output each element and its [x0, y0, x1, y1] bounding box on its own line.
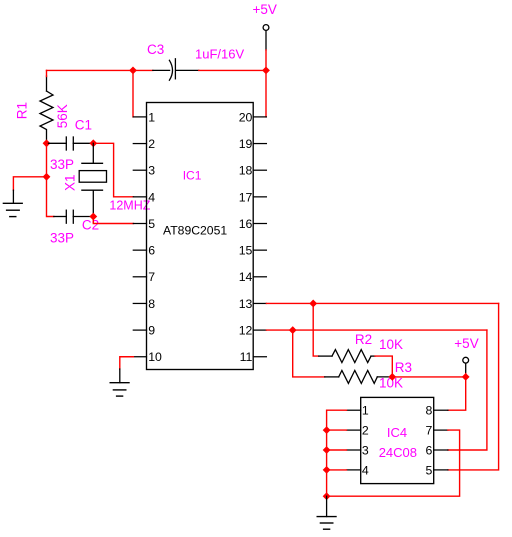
IC4 pin numbers left 1-4 — [362, 404, 369, 478]
svg-text:10K: 10K — [379, 337, 403, 352]
svg-text:6: 6 — [148, 244, 155, 258]
svg-text:15: 15 — [239, 244, 253, 258]
junction bus pin2 — [323, 427, 329, 433]
svg-text:7: 7 — [426, 424, 433, 438]
wire left vertical node — [47, 143, 54, 216]
svg-text:19: 19 — [239, 137, 253, 151]
svg-text:1: 1 — [148, 110, 155, 124]
svg-text:R1: R1 — [15, 102, 30, 119]
crystal X1 stem bottom — [92, 190, 94, 214]
svg-text:C3: C3 — [147, 42, 164, 57]
wire IC4 pin2 to bus — [327, 429, 347, 431]
svg-text:2: 2 — [148, 137, 155, 151]
wire IC4 pin3 to bus — [327, 449, 347, 451]
capacitor C3 — [153, 59, 199, 80]
wire pin13 net down to IC4 pin 5 — [448, 303, 499, 469]
wire +5V to node — [265, 50, 267, 70]
svg-text:R2: R2 — [355, 332, 372, 347]
svg-text:4: 4 — [362, 463, 369, 477]
capacitor C1 — [49, 137, 92, 150]
svg-text:20: 20 — [239, 110, 253, 124]
wire IC4 pin1 to ground bus — [327, 410, 347, 496]
junction at +5V node — [263, 67, 269, 73]
svg-text:7: 7 — [148, 270, 155, 284]
ground G1 stem — [12, 190, 14, 203]
svg-text:+5V: +5V — [253, 2, 277, 17]
junction R2/R3 node — [389, 374, 395, 380]
wire R2 left feed — [313, 303, 319, 356]
junction ground bus node — [323, 493, 329, 499]
wire C3 left lead red — [133, 69, 153, 71]
junction +5V right node — [463, 374, 469, 380]
svg-text:12: 12 — [239, 324, 253, 338]
svg-text:33P: 33P — [50, 157, 74, 172]
svg-text:X1: X1 — [63, 174, 78, 191]
crystal X1 — [79, 163, 106, 190]
svg-text:12MHZ: 12MHZ — [109, 198, 150, 212]
wire IC4 pin7 to bottom bus — [327, 430, 460, 496]
IC U4 body — [361, 397, 434, 483]
wire R2 right to +5V node — [375, 356, 392, 377]
ground G2 — [110, 383, 129, 396]
svg-text:18: 18 — [239, 164, 253, 178]
junction pin13/R2 — [310, 300, 316, 306]
junction C2 right node — [90, 213, 96, 219]
wire C3 right to +5V node — [199, 69, 266, 71]
wire R1 top red stub — [46, 70, 48, 76]
svg-text:56K: 56K — [55, 104, 70, 128]
svg-text:8: 8 — [148, 297, 155, 311]
IC1 pin stubs right — [253, 117, 266, 357]
svg-text:10: 10 — [148, 350, 162, 364]
resistor R2 — [319, 350, 375, 363]
wire R3 node to +5V terminal — [392, 376, 465, 378]
wire to left ground — [13, 177, 46, 190]
wire C3 node down to pin 1 — [132, 70, 134, 117]
svg-text:6: 6 — [426, 443, 433, 457]
power terminal P2 stem — [465, 363, 467, 373]
svg-text:C2: C2 — [82, 217, 99, 232]
junction pin12/R3 — [290, 327, 296, 333]
svg-text:3: 3 — [148, 164, 155, 178]
wire pin 10 to ground — [120, 357, 134, 369]
wire IC4 pin4 to bus — [327, 469, 347, 471]
junction bus pin3 — [323, 447, 329, 453]
svg-text:8: 8 — [426, 404, 433, 418]
ground G2 stem — [119, 369, 121, 383]
IC4 pin stubs left — [347, 410, 361, 470]
svg-text:4: 4 — [148, 190, 155, 204]
svg-text:5: 5 — [426, 463, 433, 477]
crystal X1 stem top — [92, 143, 94, 163]
resistor R3 — [325, 370, 393, 383]
IC1 pin numbers left 1-10 — [148, 110, 162, 364]
svg-text:9: 9 — [148, 324, 155, 338]
IC4 pin stubs right — [434, 410, 448, 470]
svg-text:2: 2 — [362, 424, 369, 438]
svg-text:11: 11 — [240, 350, 253, 364]
wire C2 node to pin 5 — [93, 217, 133, 224]
svg-text:AT89C2051: AT89C2051 — [163, 223, 227, 237]
power terminal P2 circle — [463, 357, 469, 363]
junction bus pin4 — [323, 467, 329, 473]
svg-text:IC4: IC4 — [387, 425, 407, 440]
svg-text:13: 13 — [239, 297, 253, 311]
wire +5V node to IC4 pin 8 — [448, 377, 466, 410]
ground G1 — [3, 203, 22, 216]
svg-text:+5V: +5V — [454, 336, 478, 351]
svg-text:5: 5 — [148, 217, 155, 231]
svg-text:3: 3 — [362, 443, 369, 457]
wire pin 12 net horizontal — [266, 329, 487, 331]
junction C1 right node — [90, 140, 96, 146]
capacitor C2 — [54, 210, 92, 223]
IC1 pin stubs left — [133, 117, 146, 357]
junction at C3 left node — [130, 67, 136, 73]
power terminal P1 stem — [265, 31, 267, 50]
junction R1/C1 node — [43, 140, 49, 146]
ground G3 stem — [326, 496, 328, 516]
svg-text:14: 14 — [239, 270, 253, 284]
wire pin12 net down to IC4 pin 6 — [448, 330, 487, 450]
resistor R1 — [40, 76, 53, 143]
svg-text:C1: C1 — [75, 118, 92, 133]
IC U1 body — [147, 103, 254, 370]
wire +5V node down to pin 20 — [265, 70, 267, 117]
ground G3 — [317, 517, 336, 530]
wire terminal to +5V node — [465, 374, 467, 377]
IC1 pin numbers right 20-11 — [239, 110, 253, 364]
junction ground branch node — [43, 174, 49, 180]
wire top horizontal R1 to C3 node — [47, 69, 134, 71]
wire C1 node to pin 4 — [93, 143, 133, 197]
wire pin 13 net horizontal — [266, 302, 498, 304]
svg-text:17: 17 — [239, 190, 253, 204]
svg-text:1: 1 — [362, 404, 369, 418]
svg-text:1uF/16V: 1uF/16V — [195, 47, 244, 62]
svg-text:33P: 33P — [50, 231, 74, 246]
power terminal P1 circle — [263, 25, 269, 31]
svg-text:IC1: IC1 — [183, 169, 202, 183]
svg-text:24C08: 24C08 — [379, 445, 417, 460]
svg-text:16: 16 — [239, 217, 253, 231]
svg-text:R3: R3 — [395, 360, 412, 375]
wire R3 left feed — [293, 330, 325, 377]
IC4 pin numbers right 8-5 — [426, 404, 433, 478]
